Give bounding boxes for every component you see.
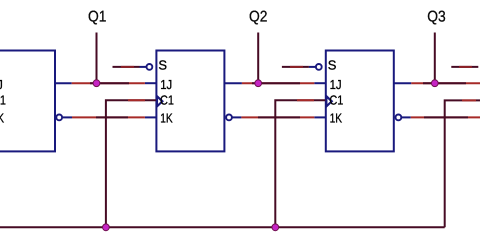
U1 pin Qbar stub [63, 116, 72, 118]
wire U2.C1 red part [128, 99, 145, 101]
wire clock rail riser to U4.C1 [445, 100, 480, 227]
junction dot clock rail at U3 [272, 224, 279, 231]
wire U3.Q to U4.1J dark part [423, 82, 466, 84]
U3 pin Q stub [394, 82, 412, 84]
svg-text:S: S [158, 58, 167, 73]
wire S input stub U3 [282, 66, 309, 68]
wire U2.Qbar to U3.1K dark part [258, 116, 300, 118]
wire U3.Qbar to U4.1K [411, 116, 480, 118]
junction dot clock rail at U2 [103, 224, 110, 231]
U2 pin Qbar bubble [226, 115, 232, 121]
U3 pin S stub [309, 66, 316, 68]
U3 clock triangle C1 [326, 96, 331, 106]
U3 pin S bubble [316, 64, 322, 70]
U2 pin Q stub [224, 82, 242, 84]
svg-text:1K: 1K [160, 111, 173, 126]
svg-text:C1: C1 [0, 93, 6, 108]
svg-text:Q1: Q1 [88, 9, 107, 26]
wire S input stub U2 red part [121, 66, 134, 68]
U3 pin Qbar bubble [396, 115, 402, 121]
wire S input stub U4 [451, 66, 478, 68]
junction dot Q3 [431, 80, 438, 87]
U2 pin S bubble [147, 64, 153, 70]
svg-text:1J: 1J [160, 77, 172, 92]
wire U3.Q to U4.1J [411, 82, 480, 84]
wire U3.Qbar to U4.1K dark part [424, 116, 468, 118]
svg-text:1K: 1K [0, 111, 4, 126]
wire S input stub U2 [113, 66, 140, 68]
wire U1.Q to U2.1J dark part [90, 82, 129, 84]
svg-text:C1: C1 [160, 93, 174, 108]
U2 pin 1J stub [145, 82, 156, 84]
wire U2.Qbar to U3.1K [241, 116, 314, 118]
flip-flop U1 (JK, partially off-screen left) [0, 51, 55, 152]
svg-text:1K: 1K [330, 111, 343, 126]
wire U2.Q to U3.1J dark part [252, 82, 300, 84]
U3 pin 1K stub [314, 116, 325, 118]
wire U3.C1 red part [297, 99, 314, 101]
U2 pin S stub [140, 66, 147, 68]
svg-text:1J: 1J [0, 77, 3, 92]
U2 pin Qbar stub [232, 116, 241, 118]
wire clock bottom rail [0, 226, 445, 228]
wire U1.Qbar to U2.1K [72, 116, 145, 118]
wire U2.Q to U3.1J [242, 82, 314, 84]
svg-text:C1: C1 [329, 93, 343, 108]
node Q1 wire [96, 33, 98, 84]
U1 pin Qbar bubble [56, 115, 62, 121]
U1 pin Q stub [55, 82, 72, 84]
node Q2 wire [257, 33, 259, 84]
junction dot Q1 [93, 80, 100, 87]
wire U1.Q to U2.1J [72, 82, 145, 84]
wire S input stub U4 red part [459, 66, 472, 68]
svg-text:Q3: Q3 [427, 9, 446, 26]
flip-flop U3 (JK) [326, 51, 394, 152]
U3 pin Qbar stub [402, 116, 411, 118]
wire clock rail to U3.C1 [275, 100, 325, 227]
U3 pin 1J stub [314, 82, 325, 84]
wire U4.C1 red part [462, 99, 476, 101]
wire U1.Qbar to U2.1K dark part [96, 116, 128, 118]
flip-flop U2 (JK) [156, 51, 224, 152]
junction dot Q2 [255, 80, 262, 87]
wire S input stub U3 red part [290, 66, 303, 68]
node Q3 wire [434, 33, 436, 84]
U2 clock triangle C1 [157, 96, 162, 106]
U2 pin 1K stub [145, 116, 156, 118]
svg-text:S: S [328, 58, 337, 73]
svg-text:Q2: Q2 [249, 9, 268, 26]
wire clock rail to U2.C1 [106, 100, 156, 227]
svg-text:1J: 1J [330, 77, 342, 92]
